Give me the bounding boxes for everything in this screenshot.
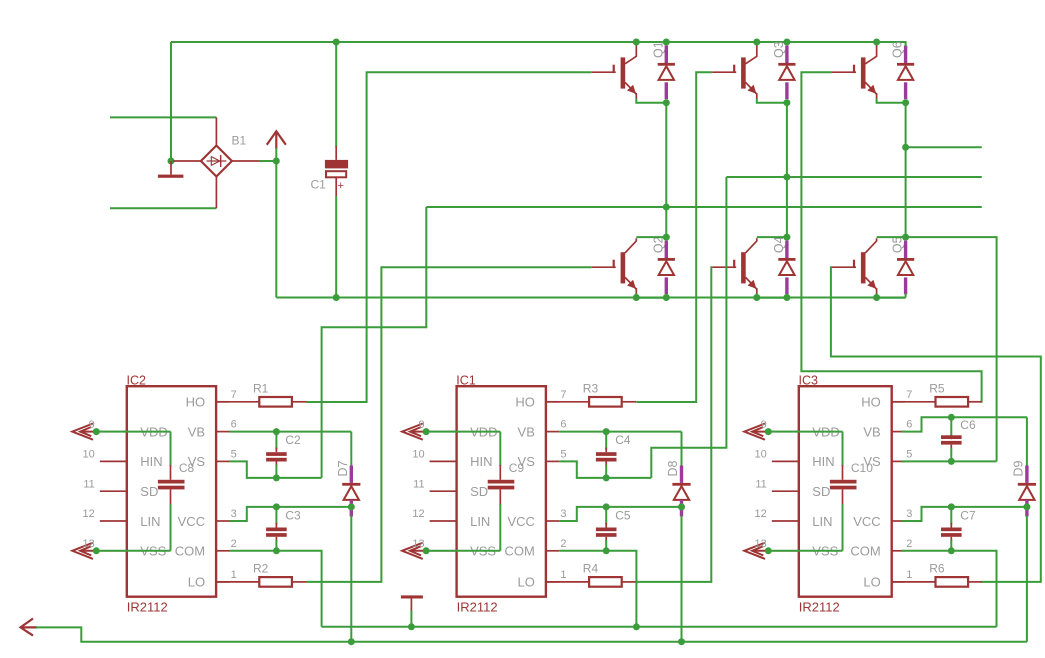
wire VDD of IC3 — [768, 431, 842, 433]
wire VCC IC3 — [902, 507, 1027, 521]
svg-text:LIN: LIN — [812, 514, 832, 529]
junction VDD arrow IC1 — [423, 428, 430, 435]
pin 7 of IC2 — [216, 401, 229, 403]
svg-text:11: 11 — [83, 478, 94, 490]
junction Q5 emitter on rail — [873, 294, 880, 301]
transistor Q5 — [861, 252, 866, 283]
diode D across Q5 — [904, 241, 907, 259]
wire VDD of IC1 — [426, 431, 500, 433]
wire COM IC1 to bus — [559, 551, 636, 627]
pin 7 of IC3 — [892, 401, 905, 403]
svg-text:HO: HO — [186, 395, 206, 410]
pin 3 of IC2 — [216, 520, 229, 522]
pin 12 of IC3 — [772, 520, 799, 522]
svg-text:C7: C7 — [960, 508, 976, 522]
junction gnd symbol on bus — [408, 623, 415, 630]
wire VB IC3 to D9 — [902, 417, 1027, 431]
wire AC input line 2 — [110, 207, 216, 209]
junction C3 bottom — [273, 547, 280, 554]
svg-text:Q3: Q3 — [772, 41, 786, 58]
svg-text:13: 13 — [83, 538, 95, 550]
supply arrow VSS of IC1 — [402, 543, 423, 559]
resistor R4 — [546, 581, 589, 583]
supply arrow VSS of IC3 — [744, 543, 765, 559]
svg-text:10: 10 — [755, 449, 767, 461]
wire VB IC2 to D7 — [230, 431, 352, 433]
svg-text:SD: SD — [140, 484, 158, 499]
wire VB IC1 to D8 — [559, 431, 681, 433]
pin 5 of IC2 — [216, 460, 229, 462]
pin 12 of IC2 — [100, 520, 127, 522]
wire +DC left drop — [170, 42, 172, 161]
svg-text:HO: HO — [861, 395, 881, 410]
svg-text:IC3: IC3 — [799, 373, 819, 387]
pin 1 of IC2 — [216, 581, 229, 583]
junction C1 bottom on rail — [333, 294, 340, 301]
junction C4 top — [603, 428, 610, 435]
ground symbol mid — [401, 595, 423, 598]
svg-text:R6: R6 — [929, 562, 945, 576]
wire emitter of Q3 to diode column — [757, 99, 787, 103]
pin 1 of IC1 — [546, 581, 559, 583]
wire phase B output — [726, 176, 981, 178]
wire Q3 gate to R3 — [637, 72, 713, 402]
svg-text:12: 12 — [83, 508, 95, 520]
svg-text:VB: VB — [518, 424, 535, 439]
transistor Q2 — [621, 252, 626, 283]
junction C5 top — [603, 503, 610, 510]
wire Q6 gate to R5 — [801, 72, 981, 403]
wire arrow to node — [275, 148, 277, 161]
wire VSS of IC3 — [768, 550, 842, 552]
wire phase A to IC2 VS — [322, 207, 427, 478]
wire COM IC2 to bus — [230, 551, 322, 627]
bridge rectifier B1 — [201, 146, 232, 177]
resistor R1 — [216, 401, 259, 403]
svg-text:R4: R4 — [583, 562, 599, 576]
wire Q2 gate to R2 — [307, 267, 592, 582]
svg-text:1: 1 — [560, 569, 566, 581]
junction VSS arrow IC2 — [93, 547, 100, 554]
svg-text:Q6: Q6 — [891, 41, 905, 58]
wire bottom rail corner into D6 — [905, 293, 907, 298]
svg-text:9: 9 — [89, 419, 95, 431]
junction C6 bottom — [948, 458, 955, 465]
junction Q3 collector on rail — [753, 39, 760, 46]
wire B1 plus to node — [259, 160, 276, 162]
pin 2 of IC1 — [546, 550, 559, 552]
transistor Q6 — [861, 57, 866, 88]
junction D8 bottom — [678, 503, 685, 510]
wire top rail corner into D5 — [905, 41, 907, 47]
wire phase C column D5-D6 — [905, 103, 907, 237]
wire VSS of IC1 — [426, 550, 500, 552]
svg-text:1: 1 — [231, 569, 237, 581]
junction +DC node at B1 — [273, 158, 280, 165]
wire VCC bus lower — [36, 627, 1027, 641]
capacitor C9 — [499, 432, 501, 466]
svg-text:VCC: VCC — [178, 514, 205, 529]
svg-text:C4: C4 — [615, 433, 631, 447]
junction phase B tap — [783, 174, 790, 181]
svg-text:10: 10 — [83, 449, 95, 461]
capacitor C10 — [842, 432, 844, 466]
capacitor C5 — [605, 507, 607, 525]
svg-text:SD: SD — [812, 484, 830, 499]
pin B1 plus — [232, 160, 261, 162]
svg-text:VB: VB — [863, 424, 880, 439]
svg-text:IC1: IC1 — [456, 373, 476, 387]
svg-text:C6: C6 — [960, 418, 976, 432]
svg-text:3: 3 — [560, 508, 566, 520]
wire COM IC3 to bus — [902, 551, 997, 627]
svg-text:R5: R5 — [929, 382, 945, 396]
capacitor C2 — [275, 432, 277, 450]
diode D across Q4 — [785, 241, 788, 259]
junction VDD arrow IC3 — [765, 428, 772, 435]
svg-text:3: 3 — [906, 508, 912, 520]
diode D9 — [1026, 417, 1028, 466]
svg-text:13: 13 — [412, 538, 424, 550]
transistor Q3 — [741, 57, 746, 88]
svg-text:2: 2 — [231, 538, 237, 550]
svg-text:C9: C9 — [509, 461, 525, 475]
pin 9 of IC2 — [100, 431, 127, 433]
svg-text:Q5: Q5 — [891, 236, 905, 253]
wire net -DC bottom rail — [276, 297, 905, 299]
supply arrow VDD of IC2 — [72, 424, 93, 440]
pin 10 of IC3 — [772, 460, 799, 462]
pin 3 of IC3 — [892, 520, 905, 522]
resistor R6 — [892, 581, 936, 583]
svg-text:13: 13 — [755, 538, 767, 550]
transistor Q1 — [621, 57, 626, 88]
svg-text:HIN: HIN — [812, 454, 834, 469]
pin 13 of IC2 — [100, 550, 127, 552]
svg-text:Q2: Q2 — [651, 236, 665, 253]
wire phase C output — [906, 146, 982, 148]
junction Q1 collector on rail — [633, 39, 640, 46]
junction C2 top — [273, 428, 280, 435]
pin 6 of IC2 — [216, 431, 229, 433]
wire phase B column D3-D4 — [786, 103, 788, 237]
svg-text:COM: COM — [175, 544, 205, 559]
wire emitter of Q2 to diode column — [636, 294, 666, 298]
capacitor C8 — [170, 432, 172, 466]
pin 12 of IC1 — [430, 520, 457, 522]
junction Q4 emitter on rail — [753, 294, 760, 301]
wire phase A output — [426, 206, 982, 208]
junction node phase B mid — [783, 234, 790, 241]
wire emitter of Q5 to diode column — [877, 294, 906, 298]
pin 5 of IC1 — [546, 460, 559, 462]
capacitor C6 — [950, 417, 952, 436]
resistor R2 — [216, 581, 259, 583]
junction D3 bottom — [783, 99, 790, 106]
diode D across Q6 — [904, 46, 907, 64]
svg-text:Q1: Q1 — [651, 41, 665, 58]
junction Q2 emitter on bottom rail — [633, 294, 640, 301]
svg-text:5: 5 — [560, 448, 566, 460]
pin 11 of IC3 — [772, 490, 799, 492]
junction C3 top — [273, 503, 280, 510]
diode D across Q2 — [665, 241, 668, 259]
pin 11 of IC2 — [100, 490, 127, 492]
svg-text:C2: C2 — [285, 433, 301, 447]
resistor R3 — [546, 401, 589, 403]
svg-text:6: 6 — [231, 419, 237, 431]
junction C4 bottom — [603, 474, 610, 481]
transistor Q4 — [741, 252, 746, 283]
svg-text:R3: R3 — [583, 382, 599, 396]
supply arrow VDD of IC3 — [744, 424, 765, 440]
capacitor C1 polarized — [335, 146, 337, 160]
pin 10 of IC1 — [430, 460, 457, 462]
wire phase C to IC3 VS — [906, 237, 997, 461]
pin 6 of IC1 — [546, 431, 559, 433]
junction D7 bottom — [348, 503, 355, 510]
diode D7 — [350, 432, 352, 467]
junction C7 top — [948, 503, 955, 510]
pin 10 of IC2 — [100, 460, 127, 462]
wire Q1 gate to R1 — [307, 72, 592, 402]
junction phase A tap — [663, 204, 670, 211]
svg-text:IC2: IC2 — [127, 373, 147, 387]
svg-text:HO: HO — [515, 395, 535, 410]
junction B1 minus node — [168, 158, 175, 165]
wire phase A column D1-D2 — [665, 103, 667, 237]
supply arrow VSS of IC2 — [72, 543, 93, 559]
resistor R5 — [892, 401, 936, 403]
wire emitter of Q1 to diode column — [636, 99, 666, 103]
svg-text:LIN: LIN — [140, 514, 160, 529]
svg-text:11: 11 — [755, 478, 766, 490]
svg-text:HIN: HIN — [470, 454, 492, 469]
pin 1 of IC3 — [892, 581, 905, 583]
pin 9 of IC1 — [430, 431, 457, 433]
svg-text:IR2112: IR2112 — [799, 600, 840, 615]
svg-text:B1: B1 — [232, 134, 247, 148]
pin 2 of IC2 — [216, 550, 229, 552]
pin 11 of IC1 — [430, 490, 457, 492]
diode D across Q3 — [785, 46, 788, 64]
wire +DC node down to bottom rail — [275, 161, 277, 298]
wire phase B to IC1 VS — [651, 177, 726, 478]
svg-text:3: 3 — [231, 508, 237, 520]
svg-text:D8: D8 — [666, 460, 680, 476]
svg-text:IR2112: IR2112 — [127, 600, 168, 615]
capacitor C7 — [950, 507, 952, 525]
wire Q2 collector link — [636, 236, 666, 238]
svg-text:LO: LO — [518, 575, 535, 590]
junction phase C tap — [902, 144, 909, 151]
junction D5 bottom — [902, 99, 909, 106]
pin 6 of IC3 — [892, 431, 905, 433]
wire VCC IC2 — [230, 507, 352, 521]
wire net +DC top rail — [171, 41, 906, 43]
junction VSS arrow IC3 — [765, 547, 772, 554]
junction D9 bottom — [1023, 503, 1030, 510]
junction C5 bottom — [603, 547, 610, 554]
svg-text:7: 7 — [560, 389, 566, 401]
svg-text:C5: C5 — [615, 508, 631, 522]
op-amp driver IC2 IR2112 body — [127, 386, 216, 597]
wire VDD of IC2 — [96, 431, 170, 433]
pin B1 AC top — [215, 117, 217, 145]
junction node phase A mid — [663, 234, 670, 241]
svg-text:9: 9 — [418, 419, 424, 431]
svg-text:LIN: LIN — [470, 514, 490, 529]
svg-text:C8: C8 — [179, 461, 195, 475]
svg-text:5: 5 — [906, 448, 912, 460]
capacitor C4 — [605, 432, 607, 450]
svg-text:6: 6 — [560, 419, 566, 431]
op-amp driver IC1 IR2112 body — [457, 386, 546, 597]
wire VCC IC1 — [559, 507, 681, 521]
svg-text:C1: C1 — [311, 178, 327, 192]
junction VSS arrow IC1 — [423, 547, 430, 554]
wire VS IC3 — [902, 460, 997, 462]
wire Q4 collector link — [757, 236, 787, 238]
wire Q5 gate to R6 — [831, 267, 1041, 582]
svg-text:LO: LO — [863, 575, 880, 590]
pin B1 AC bottom — [215, 177, 217, 209]
wire emitter of Q4 to diode column — [757, 294, 787, 298]
svg-text:6: 6 — [906, 419, 912, 431]
svg-text:2: 2 — [906, 538, 912, 550]
junction C2 bottom — [273, 474, 280, 481]
pin 2 of IC3 — [892, 550, 905, 552]
wire emitter of Q6 to diode column — [877, 99, 906, 103]
junction node phase C mid — [902, 234, 909, 241]
op-amp driver IC3 IR2112 body — [799, 386, 892, 597]
svg-text:1: 1 — [906, 569, 912, 581]
wire VSS of IC2 — [96, 550, 170, 552]
pin 13 of IC1 — [430, 550, 457, 552]
wire top rail to C1 — [335, 42, 337, 147]
wire Q4 gate to R4 — [637, 267, 713, 582]
svg-text:COM: COM — [505, 544, 535, 559]
svg-text:12: 12 — [412, 508, 424, 520]
junction D7 on lower bus — [348, 638, 355, 645]
junction D2 bottom on rail — [663, 294, 670, 301]
junction Q6 collector on rail — [873, 39, 880, 46]
junction C7 bottom — [948, 547, 955, 554]
pin 3 of IC1 — [546, 520, 559, 522]
svg-text:R1: R1 — [253, 382, 269, 396]
junction D1 bottom — [663, 99, 670, 106]
svg-text:7: 7 — [231, 389, 237, 401]
wire VS IC1 — [559, 461, 651, 478]
svg-text:+: + — [338, 180, 344, 192]
svg-text:11: 11 — [413, 478, 424, 490]
svg-text:C10: C10 — [851, 461, 873, 475]
svg-text:2: 2 — [560, 538, 566, 550]
svg-text:10: 10 — [412, 449, 424, 461]
svg-text:C3: C3 — [285, 508, 301, 522]
svg-text:VB: VB — [188, 424, 205, 439]
svg-text:IR2112: IR2112 — [457, 600, 498, 615]
junction D1 top on rail — [663, 39, 670, 46]
svg-text:VCC: VCC — [853, 514, 880, 529]
svg-text:R2: R2 — [253, 562, 269, 576]
svg-text:VCC: VCC — [507, 514, 534, 529]
junction C1 top on rail — [333, 39, 340, 46]
junction D4 bottom on rail — [783, 294, 790, 301]
capacitor C3 — [275, 507, 277, 525]
svg-text:D9: D9 — [1012, 460, 1026, 476]
svg-text:9: 9 — [761, 419, 767, 431]
wire AC input line 1 — [110, 116, 216, 118]
svg-text:5: 5 — [231, 448, 237, 460]
supply arrow VDD of IC1 — [402, 424, 423, 440]
ground symbol at B1 — [170, 161, 172, 175]
junction D8 on lower bus — [678, 638, 685, 645]
svg-text:LO: LO — [188, 575, 205, 590]
svg-text:Q4: Q4 — [772, 236, 786, 253]
junction D3 top on rail — [783, 39, 790, 46]
svg-text:SD: SD — [470, 484, 488, 499]
supply arrow VCC up symbol — [267, 131, 286, 145]
pin 7 of IC1 — [546, 401, 559, 403]
pin 13 of IC3 — [772, 550, 799, 552]
diode D8 — [681, 432, 683, 467]
pin B1 minus — [173, 160, 201, 162]
diode D across Q1 — [665, 46, 668, 64]
wire C1 to bottom rail — [335, 196, 337, 298]
wire Q5 collector link — [877, 236, 906, 238]
pin 5 of IC3 — [892, 460, 905, 462]
svg-text:D7: D7 — [336, 460, 350, 476]
svg-text:7: 7 — [906, 389, 912, 401]
svg-text:12: 12 — [755, 508, 767, 520]
svg-text:COM: COM — [850, 544, 880, 559]
wire VS IC2 — [230, 461, 322, 478]
junction VDD arrow IC2 — [93, 428, 100, 435]
node VCC input arrow left — [21, 619, 34, 636]
pin 9 of IC3 — [772, 431, 799, 433]
wire VCC bus upper — [322, 626, 997, 628]
svg-text:HIN: HIN — [140, 454, 162, 469]
junction C6 top — [948, 414, 955, 421]
junction COM IC1 on bus — [633, 623, 640, 630]
